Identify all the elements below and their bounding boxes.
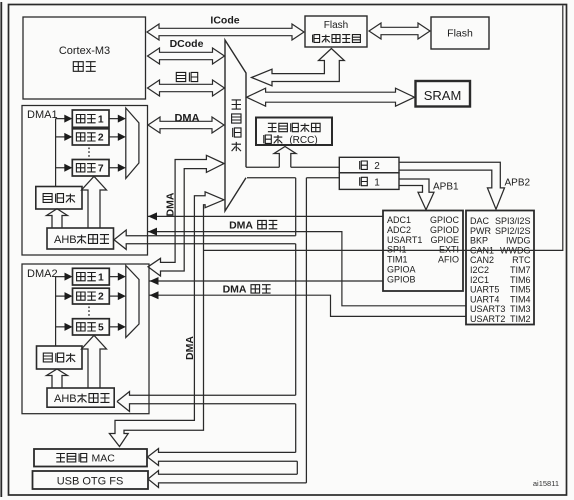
AHB vertical channel right edge [305,178,307,483]
DMA1 arbiter box (zhong cai qi) [36,187,82,210]
Flash interface CJK label line2 (jie kou kong zhi qi) [313,35,320,43]
svg-text:GPIOE: GPIOE [430,235,459,245]
DMA2 channel 5 box [73,319,110,335]
svg-text:Cortex-M3: Cortex-M3 [59,45,110,57]
svg-text:7: 7 [98,163,104,174]
svg-text:I2C2: I2C2 [470,265,489,275]
DMA2 outer box [22,264,149,414]
DMA1 channel dots [88,148,90,159]
System bus double arrow [148,80,225,96]
matrix to SRAM double arrow [247,88,415,106]
DMA2 channel feed arrows [56,276,65,278]
DMA1 arbiter up arrow [47,209,68,228]
DMA1 arbiter feed line [55,119,57,187]
APB1 peripherals box [466,211,534,325]
svg-text:UART4: UART4 [470,294,499,304]
DMA request wire to DMA2 (USART2 row) [150,295,467,316]
svg-text:SPI1: SPI1 [387,245,407,255]
ethernet MAC master bent arrow (matrix to MAC) [109,192,224,447]
AHB vertical channel left edge [295,178,297,236]
svg-text:AHB: AHB [54,234,77,246]
ethernet MAC label [56,454,65,462]
DMA1 master bus vertical label [165,192,177,216]
DMA2 channel5 up arrow [82,335,107,388]
svg-text:ICode: ICode [210,15,239,27]
ethernet MAC left arrow from AHB channel [148,449,298,466]
svg-text:DMA: DMA [229,219,253,231]
svg-text:AFIO: AFIO [438,255,459,265]
svg-text:DMA: DMA [223,284,247,296]
svg-text:1: 1 [98,272,104,283]
DMA2 master channel double bent arrow (matrix to DMA2) [148,155,224,276]
DMA1 channel 2 box [72,129,109,145]
Flash interface controller box [305,16,367,47]
svg-text:UART5: UART5 [470,285,499,295]
APB2 down arrow [399,162,505,209]
RCC label line2 [264,135,272,143]
DMA1 AHB slave left arrow from AHB channel [114,230,296,249]
matrix to flash-interface bent arrow [252,49,345,86]
DMA2 arbiter feed line [55,277,57,346]
DMA1 AHB slave box [47,228,114,249]
svg-text:PWR: PWR [470,226,491,236]
DMA2 master bus vertical label [184,336,196,360]
svg-text:APB1: APB1 [433,182,459,193]
svg-text:DMA2: DMA2 [27,268,58,280]
svg-text:IWDG: IWDG [506,236,531,246]
svg-text:GPIOB: GPIOB [387,274,416,284]
DCode bus double arrow [148,48,225,64]
svg-text:2: 2 [374,161,380,172]
svg-text:USB OTG FS: USB OTG FS [57,476,124,488]
svg-text:(RCC): (RCC) [289,135,317,146]
svg-text:APB2: APB2 [505,177,531,188]
svg-text:TIM1: TIM1 [387,255,408,265]
bus matrix outline [225,40,246,211]
DMA2 channel 1 box [73,268,110,285]
AHB system channel top edge [246,166,279,168]
svg-text:Flash: Flash [324,20,348,31]
DMA1 channel feed arrows [56,118,65,120]
svg-text:SPI3/I2S: SPI3/I2S [495,216,531,226]
RCC CJK label line1 (fu wei he shi zhong) [268,123,277,131]
bridge 1 box [339,173,399,190]
bridge 1 label [360,177,368,185]
USB OTG FS box [33,471,149,489]
svg-text:GPIOD: GPIOD [430,225,460,235]
DMA1 channel 1 CJK label (tong dao 1) [76,115,85,123]
svg-text:SRAM: SRAM [424,88,462,103]
svg-text:TIM3: TIM3 [510,304,531,314]
AHB channel MAC/USB divider [296,461,298,474]
svg-text:TIM4: TIM4 [510,294,531,304]
DMA1 channel7 up arrow [82,176,107,228]
Cortex-M3 core box [23,17,146,99]
reset and clock control RCC box [256,118,332,146]
svg-text:Flash: Flash [447,28,473,40]
System bus CJK label (xi tong) [176,72,185,81]
svg-text:RTC: RTC [512,255,531,265]
bus matrix vertical label (zong xian ju zhen) [232,100,241,109]
svg-text:EXTI: EXTI [439,245,459,255]
DMA1 mux trapezoid [126,108,139,178]
DMA2 channel 2 box [73,288,110,304]
svg-text:USART1: USART1 [387,235,422,245]
SRAM box [416,81,471,107]
peripheral wire through SPI1/EXTI/CAN1/WWDG rows [204,6,563,251]
svg-text:5: 5 [98,322,104,333]
svg-text:DMA: DMA [174,113,199,125]
APB2 peripherals box [383,211,463,292]
Flash box [431,17,489,49]
bridge 2 box [339,157,399,173]
DMA request wire to DMA1 (USART3 row) [148,232,466,306]
USB OTG left arrow from AHB channel [148,471,306,488]
svg-text:GPIOC: GPIOC [430,215,460,225]
DMA request wire to DMA2 (GPIOB row) [150,280,384,282]
svg-text:2: 2 [98,292,104,303]
svg-text:CAN2: CAN2 [470,255,494,265]
svg-text:USART2: USART2 [470,314,505,324]
DMA1 channel 1 box [72,110,109,127]
DMA request wire to DMA1 (ADC row) [148,215,383,217]
DMA2 arbiter up arrow [47,369,68,388]
DMA1 outer box [22,106,148,256]
svg-text:TIM7: TIM7 [510,265,531,275]
svg-text:ai15811: ai15811 [533,479,559,488]
ethernet MAC box [34,449,147,467]
RCC up arrow from AHB channel [274,147,296,168]
DMA1 channel 7 box [72,160,109,177]
svg-text:DCode: DCode [170,38,204,50]
svg-text:MAC: MAC [92,453,116,465]
scan artifact line at left edge [0,2,2,497]
DMA1 channel 7 CJK label (tong dao 7) [76,164,85,172]
DMA2 channel dots [88,307,90,318]
DMA2 mux trapezoid [126,266,139,338]
svg-text:2: 2 [98,133,104,144]
DMA1 arbiter CJK label [43,194,52,203]
ICode bus double arrow [147,24,304,40]
svg-text:DAC: DAC [470,216,490,226]
DMA2 channel 1 CJK label (tong dao 1) [77,273,86,281]
svg-text:TIM6: TIM6 [510,275,531,285]
svg-text:ADC1: ADC1 [387,215,411,225]
svg-text:GPIOA: GPIOA [387,265,416,275]
DMA2 AHB slave left arrow from AHB channel [117,392,296,412]
DMA2 arbiter CJK label [43,353,52,362]
DMA2 channel 2 CJK label (tong dao 2) [77,292,86,300]
Cortex DMA double arrow [148,117,224,133]
svg-text:USART3: USART3 [470,304,505,314]
svg-text:DMA1: DMA1 [27,109,58,121]
DMA1 channel 2 CJK label (tong dao 2) [76,133,85,141]
APB1 down arrow [399,179,434,210]
svg-text:BKP: BKP [470,236,488,246]
flash-interface to flash double arrow [369,23,430,39]
svg-text:SPI2/I2S: SPI2/I2S [495,226,531,236]
DMA2 AHB slave box [47,388,114,407]
svg-text:TIM5: TIM5 [510,285,531,295]
svg-text:I2C1: I2C1 [470,275,489,285]
AHB system channel bottom edge [247,177,296,179]
svg-text:1: 1 [374,177,380,188]
bridge 2 label [360,161,368,169]
svg-text:AHB: AHB [54,393,77,405]
svg-text:ADC2: ADC2 [387,225,411,235]
svg-text:1: 1 [98,114,104,125]
svg-text:TIM2: TIM2 [510,314,531,324]
DMA2 arbiter box (zhong cai qi) [37,346,83,369]
DMA2 channel 5 CJK label (tong dao 5) [77,323,86,331]
core CJK label (he xin) [73,62,83,72]
